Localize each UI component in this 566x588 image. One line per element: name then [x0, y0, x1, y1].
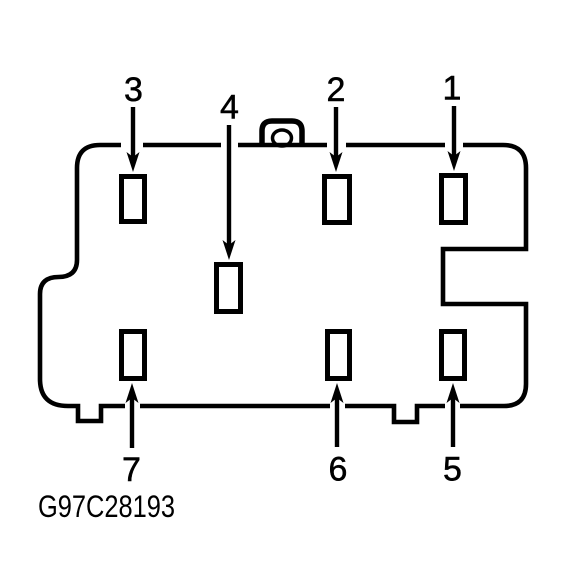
svg-text:1: 1 [443, 70, 462, 108]
wire top edge segment between pin2 and pin1 arrows [346, 143, 445, 148]
arrow to pin 7 [126, 383, 139, 448]
lock tab circle [273, 130, 292, 146]
arrow to pin 4 [223, 125, 236, 260]
arrow to pin 1 [448, 106, 461, 171]
wire bottom edge segment with index notch between pin5 and pin6 arrows [345, 406, 445, 422]
pin cavity 4 [217, 265, 241, 312]
pin cavity 2 [325, 177, 350, 223]
wire connector body outline left section [40, 145, 125, 421]
pin cavity 3 [122, 177, 145, 222]
wire top edge segment between pin4 and pin2 arrows [238, 143, 327, 148]
arrow to pin 5 [447, 383, 460, 447]
svg-text:5: 5 [443, 451, 462, 489]
svg-text:4: 4 [220, 89, 239, 127]
svg-text:6: 6 [329, 451, 348, 489]
wire bottom edge segment between pin6 and pin7 arrows [140, 404, 330, 409]
wire top edge segment between pin3 and pin4 arrows [143, 143, 221, 148]
pin cavity 5 [442, 332, 465, 379]
svg-text:7: 7 [122, 451, 141, 489]
connector lock tab [262, 121, 302, 147]
pin cavity 6 [328, 332, 350, 379]
wire connector body outline right section with keyway notch [443, 145, 526, 406]
svg-text:3: 3 [124, 71, 143, 109]
arrow to pin 3 [127, 107, 140, 172]
arrow to pin 6 [331, 383, 344, 447]
arrow to pin 2 [330, 107, 343, 172]
svg-text:2: 2 [327, 71, 346, 109]
pin cavity 7 [122, 332, 145, 379]
pin cavity 1 [442, 176, 466, 223]
svg-text:G97C28193: G97C28193 [38, 489, 175, 524]
